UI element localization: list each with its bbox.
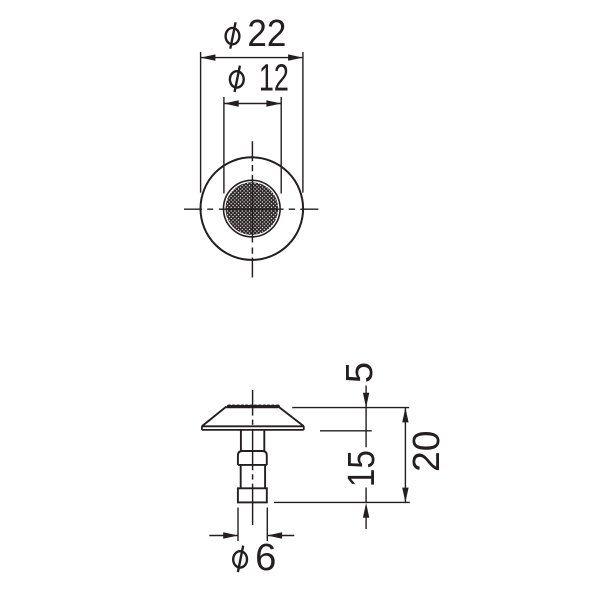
arrowhead left phi22 — [201, 54, 216, 60]
extension line B (head bottom) — [320, 430, 372, 432]
arrowhead right-pointing at left ext — [223, 532, 238, 538]
head right slope — [278, 407, 303, 427]
arrowhead right phi12 — [266, 100, 281, 106]
svg-text:5: 5 — [338, 362, 381, 383]
svg-text:22: 22 — [247, 12, 286, 55]
svg-text:12: 12 — [259, 57, 289, 100]
extension lines phi6 — [238, 508, 267, 542]
extension lines phi22 — [201, 52, 303, 193]
arrowhead right phi22 — [288, 54, 303, 60]
arrowhead up at line A (20 dim) — [402, 408, 408, 423]
serration bumps — [227, 405, 279, 407]
outer circle (head rim, phi22) — [201, 157, 304, 260]
head left slope — [202, 407, 226, 427]
arrowhead left phi12 — [224, 100, 239, 106]
vertical centerline of side view — [252, 390, 254, 525]
stem neck — [241, 430, 264, 451]
head top serrated edge — [226, 406, 278, 408]
arrowhead left-pointing at right ext — [267, 532, 282, 538]
phi symbol of phi12 label — [230, 66, 244, 92]
extension line A (head top) — [292, 407, 409, 409]
dimension line phi22 — [201, 57, 303, 59]
phi symbol of phi6 label — [233, 546, 247, 572]
svg-text:6: 6 — [255, 536, 276, 579]
arrowhead down at line C (20 dim) — [402, 488, 408, 503]
dimension line for 5 and 15 — [365, 386, 367, 530]
knurl ring (phi12 boss outline) — [224, 180, 281, 237]
svg-text:15: 15 — [340, 450, 383, 487]
svg-text:20: 20 — [405, 430, 448, 472]
dimension line for 20 — [404, 408, 406, 503]
stem rib 2 — [238, 488, 267, 502]
head brim band — [202, 426, 304, 430]
dimension line phi12 — [224, 103, 281, 105]
stem rib 1 (rounded shoulders) — [238, 451, 267, 465]
extension line C (rib end) — [274, 501, 410, 503]
stem mid section — [241, 465, 265, 488]
phi symbol of phi22 label — [226, 22, 240, 48]
dimension line phi6 (outside arrows) — [209, 535, 294, 537]
arrowhead down at line A — [363, 393, 369, 408]
horizontal centerline of top view — [184, 208, 318, 210]
extension lines phi12 — [224, 97, 281, 194]
arrowhead up below line C — [363, 503, 369, 518]
knurl textured disc — [226, 182, 279, 235]
vertical centerline of top view — [251, 141, 253, 277]
